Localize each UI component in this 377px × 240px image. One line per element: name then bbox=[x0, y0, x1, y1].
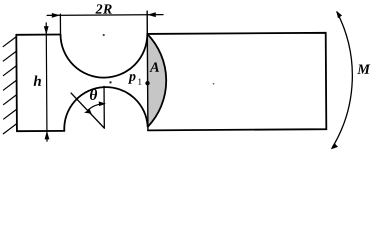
2R left extension line bbox=[59, 14, 61, 34]
hatching of wall bbox=[3, 36, 17, 133]
dimension line 2R bbox=[47, 14, 163, 17]
point p1 dot bbox=[145, 81, 149, 85]
h bottom arrowhead bbox=[45, 131, 50, 139]
wall (fixed support) line bbox=[15, 35, 18, 131]
svg-text:h: h bbox=[33, 74, 41, 90]
svg-text:2R: 2R bbox=[94, 3, 112, 18]
svg-text:A: A bbox=[149, 60, 160, 76]
moment bottom arrowhead bbox=[331, 143, 338, 149]
beam top edge (left of notch) bbox=[16, 34, 60, 36]
section line / extension line through notch root bbox=[146, 11, 149, 130]
top notch semicircular arc 2R bbox=[61, 34, 148, 78]
bottom notch circular arc bbox=[64, 87, 148, 131]
dimension line h bbox=[45, 23, 48, 141]
2R left arrowhead bbox=[52, 13, 61, 18]
2R right arrowhead bbox=[147, 12, 156, 17]
beam bottom edge (left of notch) bbox=[17, 130, 64, 132]
arc boundary of area A bbox=[147, 34, 166, 127]
svg-text:p: p bbox=[128, 70, 136, 85]
faint dot in rectangle bbox=[213, 83, 215, 85]
h top arrowhead bbox=[44, 26, 49, 34]
svg-text:1: 1 bbox=[137, 78, 142, 88]
svg-text:M: M bbox=[356, 62, 371, 78]
svg-text:θ: θ bbox=[89, 87, 97, 104]
small dot in the ligament bbox=[109, 81, 111, 83]
theta inclined radius line bbox=[71, 93, 104, 129]
shaded area A (lens region at critical section) bbox=[147, 34, 166, 127]
theta angle arc with arrows bbox=[88, 104, 105, 111]
center mark dot (top circle) bbox=[103, 34, 105, 36]
moment top arrowhead bbox=[336, 11, 342, 18]
moment arc M bbox=[331, 12, 352, 148]
theta vertical radius line bbox=[103, 86, 105, 128]
right rectangular beam section bbox=[147, 33, 326, 131]
